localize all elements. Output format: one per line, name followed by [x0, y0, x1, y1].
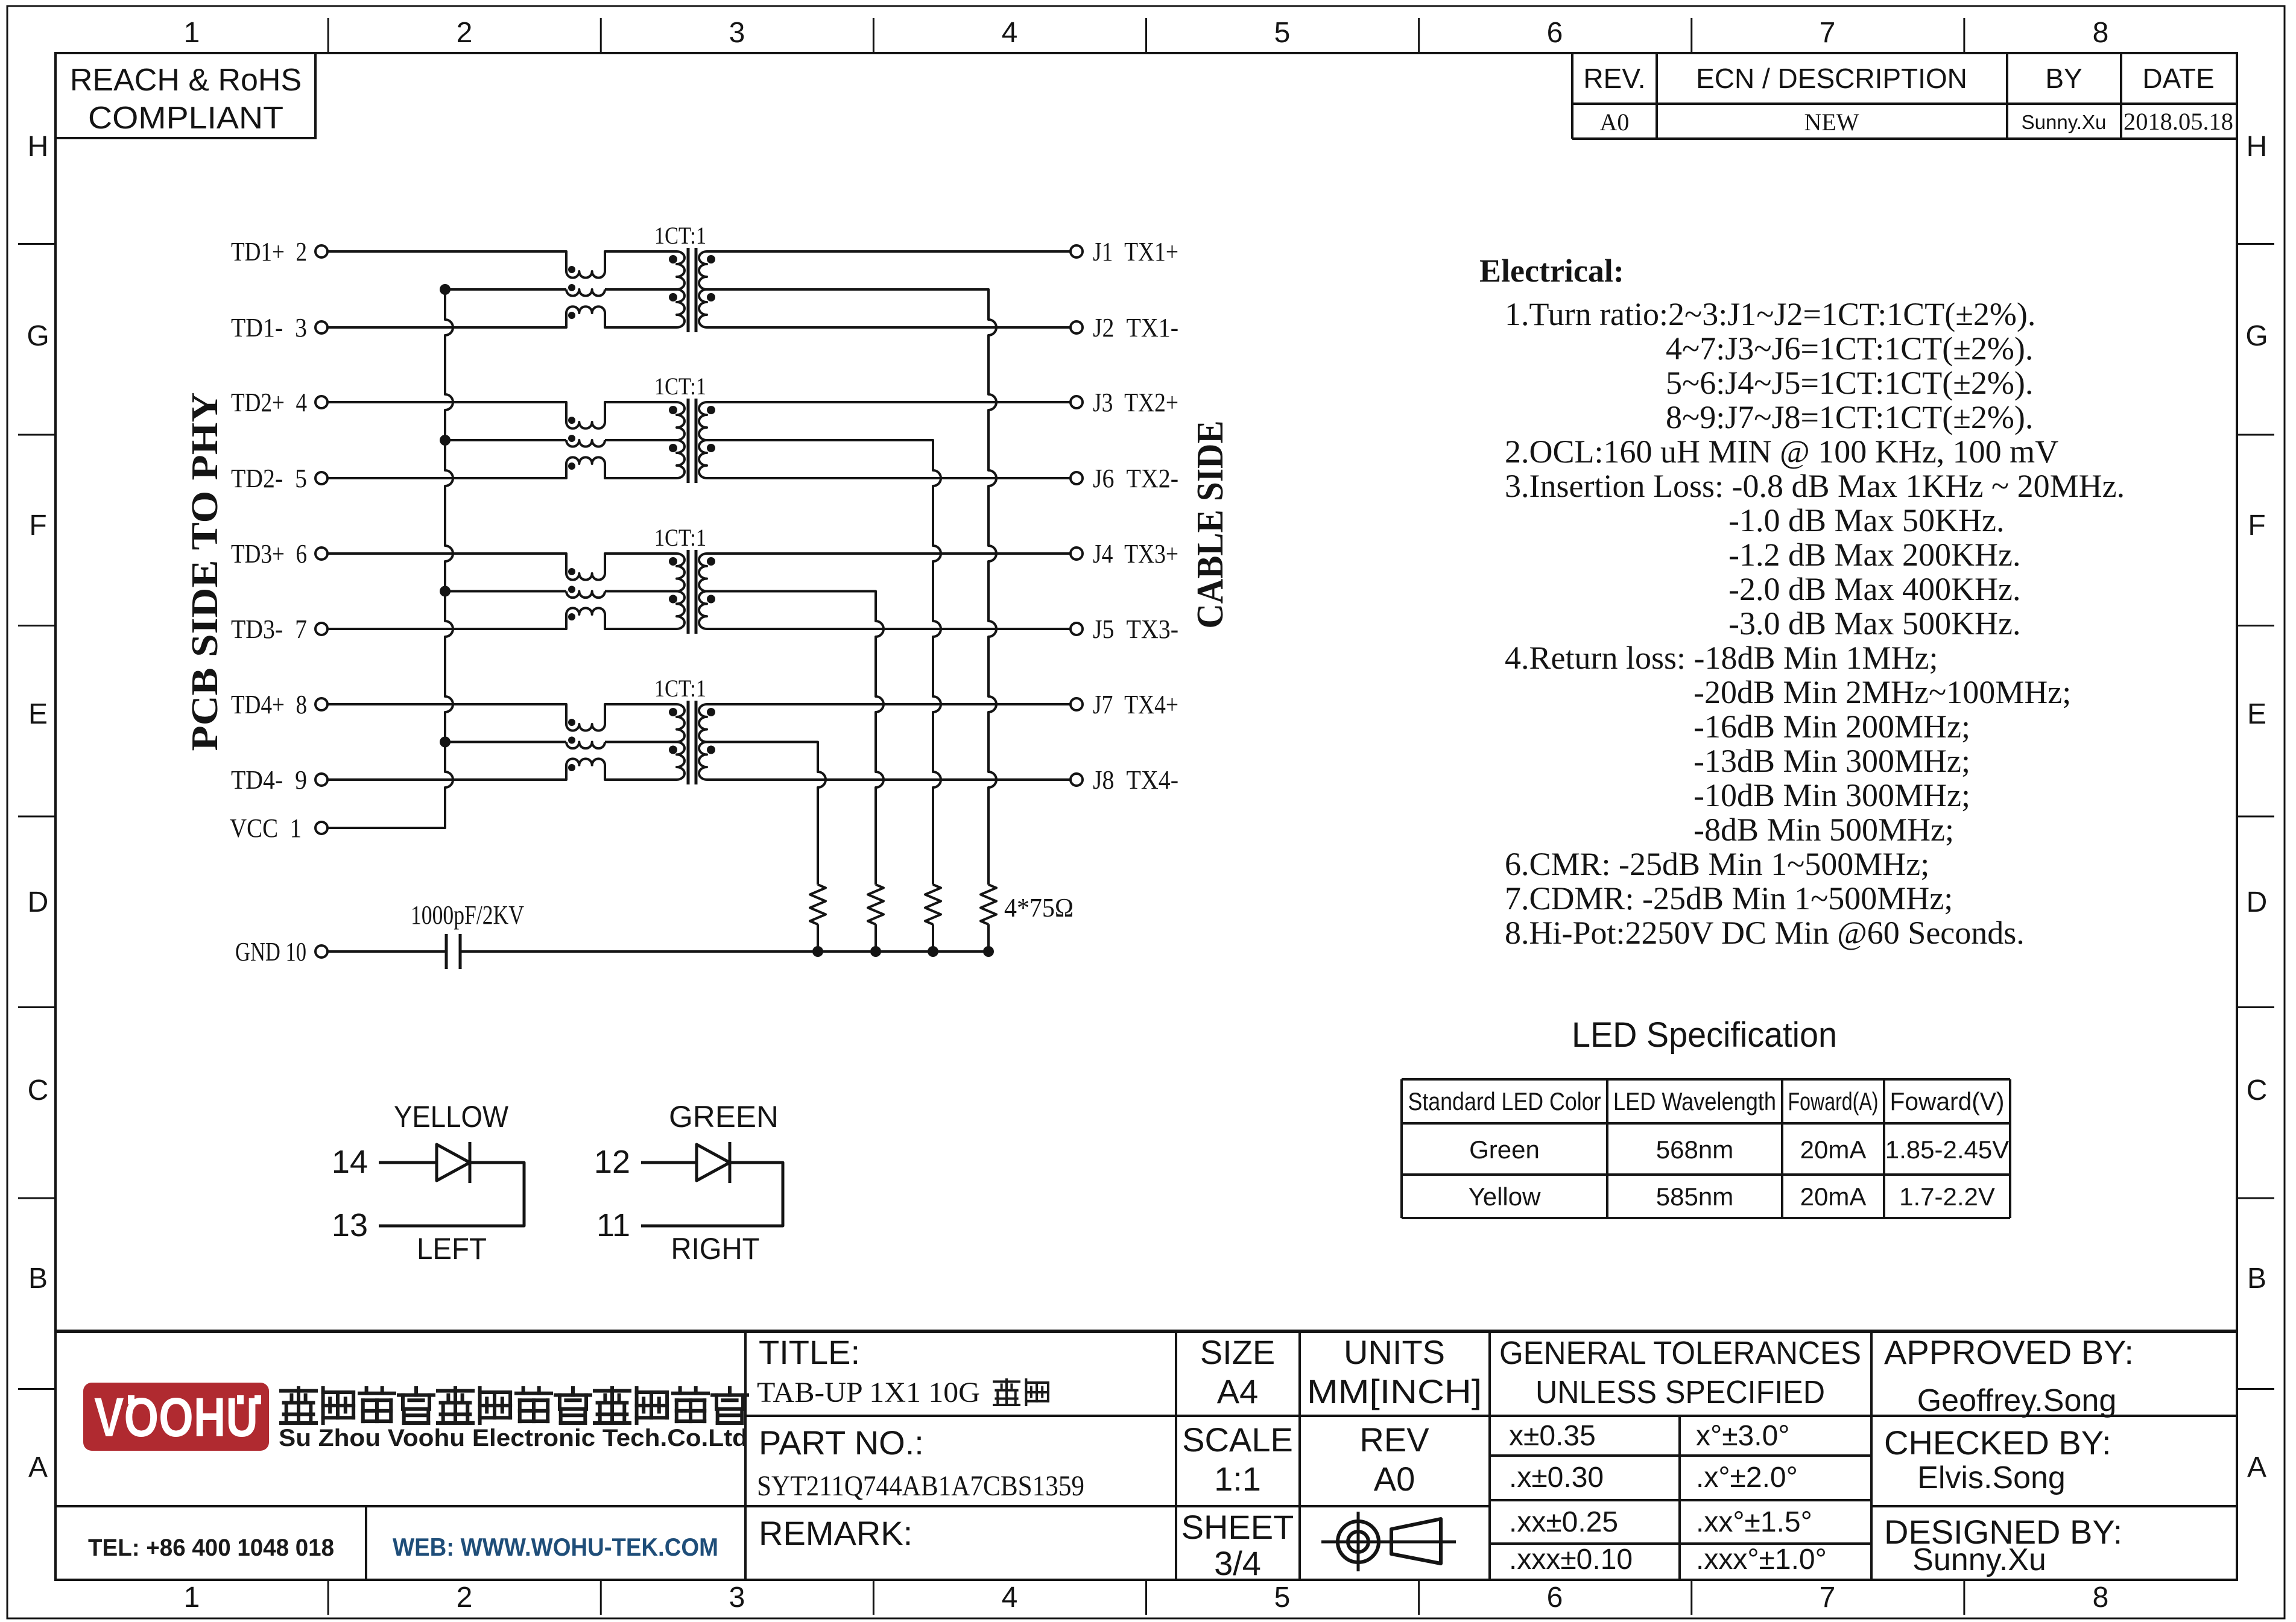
- svg-text:6.CMR: -25dB Min 1~500MHz;: 6.CMR: -25dB Min 1~500MHz;: [1505, 846, 1929, 882]
- svg-text:4: 4: [1002, 1582, 1018, 1614]
- svg-text:TD4- 9: TD4- 9: [231, 765, 307, 795]
- svg-text:.x±0.30: .x±0.30: [1509, 1462, 1604, 1494]
- svg-text:5: 5: [1274, 1582, 1291, 1614]
- svg-text:2.OCL:160 uH MIN @ 100 KHz, 10: 2.OCL:160 uH MIN @ 100 KHz, 100 mV: [1505, 434, 2058, 470]
- svg-text:REMARK:: REMARK:: [759, 1514, 912, 1552]
- svg-text:1CT:1: 1CT:1: [654, 675, 706, 702]
- svg-text:4.Return loss: -18dB Min 1MHz;: 4.Return loss: -18dB Min 1MHz;: [1505, 640, 1938, 676]
- svg-text:J1 TX1+: J1 TX1+: [1093, 237, 1178, 267]
- svg-text:A: A: [28, 1451, 48, 1483]
- svg-text:J4 TX3+: J4 TX3+: [1093, 539, 1178, 569]
- svg-text:5~6:J4~J5=1CT:1CT(±2%).: 5~6:J4~J5=1CT:1CT(±2%).: [1666, 365, 2033, 401]
- svg-text:7: 7: [1820, 17, 1836, 49]
- svg-text:8.Hi-Pot:2250V DC Min @60 Seco: 8.Hi-Pot:2250V DC Min @60 Seconds.: [1505, 915, 2025, 951]
- svg-text:LEFT: LEFT: [417, 1232, 487, 1266]
- svg-text:1:1: 1:1: [1214, 1460, 1261, 1498]
- svg-text:TAB-UP 1X1 10G: TAB-UP 1X1 10G: [757, 1377, 980, 1409]
- svg-text:3: 3: [729, 1582, 745, 1614]
- svg-text:4: 4: [1002, 17, 1018, 49]
- svg-text:.xx±0.25: .xx±0.25: [1509, 1506, 1618, 1538]
- svg-text:Electrical:: Electrical:: [1479, 253, 1624, 289]
- svg-text:.xxx±0.10: .xxx±0.10: [1509, 1544, 1633, 1576]
- svg-text:G: G: [2245, 320, 2268, 352]
- svg-text:20mA: 20mA: [1800, 1182, 1867, 1211]
- svg-text:x±0.35: x±0.35: [1509, 1420, 1596, 1452]
- svg-text:TD1+ 2: TD1+ 2: [231, 237, 307, 267]
- svg-text:-20dB Min 2MHz~100MHz;: -20dB Min 2MHz~100MHz;: [1694, 674, 2071, 710]
- svg-text:TITLE:: TITLE:: [759, 1333, 860, 1371]
- svg-text:.xx°±1.5°: .xx°±1.5°: [1696, 1506, 1812, 1538]
- svg-text:C: C: [2247, 1074, 2268, 1106]
- svg-text:12: 12: [594, 1144, 630, 1180]
- svg-text:TEL: +86 400 1048 018: TEL: +86 400 1048 018: [88, 1535, 334, 1561]
- svg-text:8~9:J7~J8=1CT:1CT(±2%).: 8~9:J7~J8=1CT:1CT(±2%).: [1666, 399, 2033, 435]
- svg-text:J7 TX4+: J7 TX4+: [1093, 690, 1178, 719]
- svg-text:-2.0 dB Max 400KHz.: -2.0 dB Max 400KHz.: [1728, 571, 2020, 607]
- svg-text:Geoffrey.Song: Geoffrey.Song: [1917, 1383, 2117, 1418]
- svg-text:H: H: [28, 131, 49, 163]
- svg-text:MM[INCH]: MM[INCH]: [1307, 1372, 1482, 1410]
- svg-text:H: H: [2247, 131, 2268, 163]
- svg-text:D: D: [28, 886, 49, 918]
- svg-text:J6 TX2-: J6 TX2-: [1093, 464, 1178, 493]
- svg-text:TD1- 3: TD1- 3: [231, 313, 307, 342]
- svg-text:7: 7: [1820, 1582, 1836, 1614]
- svg-text:LED Specification: LED Specification: [1572, 1015, 1837, 1055]
- svg-text:-10dB Min 300MHz;: -10dB Min 300MHz;: [1694, 777, 1970, 813]
- svg-text:UNITS: UNITS: [1344, 1333, 1445, 1371]
- svg-text:TD4+ 8: TD4+ 8: [231, 690, 307, 719]
- svg-text:-13dB Min 300MHz;: -13dB Min 300MHz;: [1694, 743, 1970, 779]
- svg-text:3: 3: [729, 17, 745, 49]
- svg-text:WEB: WWW.WOHU-TEK.COM: WEB: WWW.WOHU-TEK.COM: [393, 1533, 718, 1561]
- svg-text:-8dB Min 500MHz;: -8dB Min 500MHz;: [1694, 812, 1954, 848]
- svg-text:.x°±2.0°: .x°±2.0°: [1696, 1462, 1798, 1494]
- svg-text:BY: BY: [2045, 63, 2082, 94]
- svg-text:E: E: [2247, 698, 2266, 730]
- svg-text:1.85-2.45V: 1.85-2.45V: [1885, 1135, 2010, 1164]
- svg-text:RIGHT: RIGHT: [671, 1232, 760, 1266]
- svg-text:-3.0 dB Max 500KHz.: -3.0 dB Max 500KHz.: [1728, 605, 2020, 642]
- svg-text:TD2- 5: TD2- 5: [231, 464, 307, 493]
- svg-text:REACH & RoHS: REACH & RoHS: [70, 63, 302, 98]
- svg-text:GND 10: GND 10: [235, 937, 306, 967]
- svg-text:6: 6: [1547, 1582, 1563, 1614]
- svg-text:TD3+ 6: TD3+ 6: [231, 539, 307, 569]
- svg-text:13: 13: [332, 1207, 368, 1243]
- svg-text:D: D: [2247, 886, 2268, 918]
- svg-text:4~7:J3~J6=1CT:1CT(±2%).: 4~7:J3~J6=1CT:1CT(±2%).: [1666, 330, 2033, 367]
- svg-text:G: G: [27, 320, 49, 352]
- svg-text:7.CDMR: -25dB Min 1~500MHz;: 7.CDMR: -25dB Min 1~500MHz;: [1505, 880, 1953, 917]
- svg-text:LED Wavelength: LED Wavelength: [1613, 1087, 1776, 1116]
- svg-text:J5 TX3-: J5 TX3-: [1093, 614, 1178, 644]
- svg-text:Sunny.Xu: Sunny.Xu: [1912, 1542, 2046, 1577]
- svg-text:4*75Ω: 4*75Ω: [1004, 893, 1074, 923]
- svg-text:A0: A0: [1600, 109, 1630, 136]
- svg-text:SIZE: SIZE: [1200, 1333, 1275, 1371]
- svg-text:COMPLIANT: COMPLIANT: [88, 101, 283, 136]
- svg-text:8: 8: [2093, 17, 2109, 49]
- svg-text:Green: Green: [1469, 1135, 1540, 1164]
- svg-text:E: E: [28, 698, 48, 730]
- svg-text:568nm: 568nm: [1656, 1135, 1733, 1164]
- svg-text:Yellow: Yellow: [1469, 1182, 1542, 1211]
- svg-text:NEW: NEW: [1804, 109, 1859, 136]
- svg-text:11: 11: [596, 1207, 630, 1243]
- svg-text:2018.05.18: 2018.05.18: [2124, 108, 2233, 135]
- svg-text:GREEN: GREEN: [669, 1100, 779, 1134]
- svg-text:TD3- 7: TD3- 7: [231, 614, 307, 644]
- svg-text:Sunny.Xu: Sunny.Xu: [2022, 111, 2107, 133]
- svg-text:A4: A4: [1217, 1372, 1259, 1410]
- svg-text:UNLESS SPECIFIED: UNLESS SPECIFIED: [1535, 1374, 1825, 1410]
- svg-text:-1.0 dB Max 50KHz.: -1.0 dB Max 50KHz.: [1728, 502, 2004, 538]
- svg-text:1CT:1: 1CT:1: [654, 222, 706, 249]
- svg-text:1.Turn ratio:2~3:J1~J2=1CT:1CT: 1.Turn ratio:2~3:J1~J2=1CT:1CT(±2%).: [1505, 296, 2035, 332]
- svg-text:VCC 1: VCC 1: [230, 813, 302, 843]
- svg-text:ECN / DESCRIPTION: ECN / DESCRIPTION: [1696, 63, 1967, 94]
- svg-text:.xxx°±1.0°: .xxx°±1.0°: [1696, 1544, 1827, 1576]
- svg-text:DATE: DATE: [2142, 63, 2214, 94]
- svg-text:REV: REV: [1359, 1421, 1429, 1459]
- svg-text:SHEET: SHEET: [1181, 1508, 1294, 1546]
- svg-text:5: 5: [1274, 17, 1291, 49]
- svg-text:3.Insertion Loss: -0.8 dB Max: 3.Insertion Loss: -0.8 dB Max 1KHz ~ 20M…: [1505, 468, 2125, 504]
- svg-text:PART NO.:: PART NO.:: [759, 1424, 924, 1462]
- svg-text:585nm: 585nm: [1656, 1182, 1733, 1211]
- svg-text:14: 14: [332, 1144, 368, 1180]
- svg-text:CABLE SIDE: CABLE SIDE: [1190, 421, 1231, 629]
- svg-text:J2 TX1-: J2 TX1-: [1093, 313, 1178, 342]
- svg-text:Standard LED Color: Standard LED Color: [1408, 1087, 1601, 1116]
- svg-text:J3 TX2+: J3 TX2+: [1093, 388, 1178, 417]
- svg-text:F: F: [29, 510, 46, 541]
- svg-text:J8 TX4-: J8 TX4-: [1093, 765, 1178, 795]
- svg-text:Su Zhou Voohu Electronic Tech.: Su Zhou Voohu Electronic Tech.Co.Ltd: [279, 1425, 748, 1451]
- svg-text:Foward(A): Foward(A): [1788, 1087, 1879, 1116]
- svg-text:YELLOW: YELLOW: [394, 1100, 509, 1134]
- svg-text:VOOHU: VOOHU: [94, 1387, 258, 1448]
- svg-text:A: A: [2247, 1451, 2266, 1483]
- svg-text:-1.2 dB Max 200KHz.: -1.2 dB Max 200KHz.: [1728, 537, 2020, 573]
- svg-text:GENERAL TOLERANCES: GENERAL TOLERANCES: [1499, 1335, 1861, 1371]
- svg-text:Foward(V): Foward(V): [1890, 1087, 2005, 1116]
- svg-text:B: B: [28, 1263, 48, 1295]
- svg-text:C: C: [28, 1074, 49, 1106]
- svg-text:8: 8: [2093, 1582, 2109, 1614]
- svg-text:20mA: 20mA: [1800, 1135, 1867, 1164]
- svg-text:2: 2: [457, 1582, 473, 1614]
- svg-text:x°±3.0°: x°±3.0°: [1696, 1420, 1789, 1452]
- svg-text:6: 6: [1547, 17, 1563, 49]
- svg-text:Elvis.Song: Elvis.Song: [1917, 1460, 2066, 1495]
- svg-text:REV.: REV.: [1583, 63, 1645, 94]
- svg-text:TD2+ 4: TD2+ 4: [231, 388, 307, 417]
- svg-text:SYT211Q744AB1A7CBS1359: SYT211Q744AB1A7CBS1359: [757, 1470, 1084, 1502]
- svg-text:2: 2: [457, 17, 473, 49]
- svg-text:F: F: [2248, 510, 2265, 541]
- svg-text:SCALE: SCALE: [1182, 1421, 1293, 1459]
- svg-text:A0: A0: [1374, 1460, 1415, 1498]
- svg-text:1: 1: [184, 1582, 200, 1614]
- svg-text:1000pF/2KV: 1000pF/2KV: [411, 900, 524, 930]
- svg-text:B: B: [2247, 1263, 2266, 1295]
- svg-text:1CT:1: 1CT:1: [654, 524, 706, 551]
- svg-text:-16dB Min 200MHz;: -16dB Min 200MHz;: [1694, 708, 1970, 745]
- svg-text:APPROVED BY:: APPROVED BY:: [1884, 1333, 2134, 1371]
- svg-text:1: 1: [184, 17, 200, 49]
- svg-text:PCB SIDE TO PHY: PCB SIDE TO PHY: [185, 393, 226, 751]
- svg-text:CHECKED BY:: CHECKED BY:: [1884, 1424, 2111, 1462]
- svg-text:1CT:1: 1CT:1: [654, 373, 706, 400]
- svg-text:3/4: 3/4: [1214, 1544, 1261, 1582]
- svg-text:1.7-2.2V: 1.7-2.2V: [1899, 1182, 1995, 1211]
